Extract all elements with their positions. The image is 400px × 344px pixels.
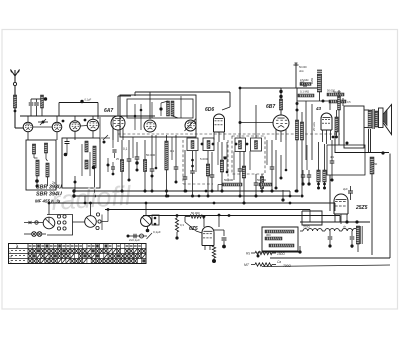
junction heater <box>355 220 358 223</box>
wire net top <box>297 87 318 89</box>
wire L1 bottom2 <box>47 177 49 186</box>
field coil <box>370 157 374 174</box>
wire 6B7 top <box>280 88 282 115</box>
junction antenna <box>14 110 17 113</box>
wire 25Z5 pins <box>335 214 349 224</box>
coil L1b lower <box>46 163 49 177</box>
wire V3 stub <box>74 116 76 121</box>
capacitor C13 <box>330 140 335 182</box>
bus wire 5 <box>143 215 340 217</box>
label MF 455 <box>35 199 61 204</box>
switch S1 frame <box>47 215 73 236</box>
IF1 diag <box>185 119 197 132</box>
wires IF2 bottom <box>275 150 283 190</box>
resistor R6 <box>206 151 209 198</box>
wire extra11 <box>306 145 308 170</box>
pilot lamps <box>24 232 46 237</box>
box B1 fill <box>207 141 210 149</box>
label 6Z5 <box>189 226 198 232</box>
label MT val <box>277 260 291 268</box>
label Rs val <box>277 252 285 256</box>
trimmer arrow S3 <box>147 233 153 239</box>
resistor R1 <box>41 95 44 116</box>
wire extra1 <box>132 137 134 158</box>
capacitor C9 <box>254 174 259 198</box>
shield dashed v1 <box>183 140 228 184</box>
svg-text:150Ω: 150Ω <box>277 252 285 256</box>
svg-text:ch: ch <box>343 225 346 229</box>
IF1 coil a <box>167 101 170 116</box>
IF1 can <box>120 95 196 137</box>
wire top bus1 <box>118 95 131 97</box>
wire v4 down <box>92 131 94 138</box>
capacitor C8 <box>238 152 243 198</box>
wire spk top <box>364 109 369 111</box>
label 25m <box>116 157 119 161</box>
capacitor C4b <box>150 135 155 193</box>
wire 45v <box>306 101 316 160</box>
watermark <box>50 180 132 216</box>
legend MT <box>244 263 250 267</box>
label 50k <box>146 153 156 157</box>
label 6A7 <box>104 108 113 114</box>
coil L1b upper <box>44 143 47 153</box>
resistor R8 <box>242 151 245 205</box>
trimmer L2 <box>64 138 70 156</box>
svg-text:6A7: 6A7 <box>104 108 113 114</box>
wire L2 verts <box>82 144 90 176</box>
wire heater bus <box>300 221 370 223</box>
junction 6Z5 k <box>212 258 216 263</box>
bus wire 1 <box>74 190 290 192</box>
wire mains 1 <box>258 246 300 252</box>
bus wire 1b <box>289 191 291 196</box>
capacitor C3 <box>127 140 132 182</box>
wire 25Z5 frame <box>302 211 322 225</box>
wire gang2 <box>80 125 87 128</box>
wire choke line <box>300 230 342 232</box>
bus wire 3b <box>334 203 336 211</box>
svg-text:0,3: 0,3 <box>180 223 184 227</box>
shield dashed line <box>118 133 340 135</box>
capacitor C17 <box>134 234 136 238</box>
resistor R2 <box>120 140 123 193</box>
wire 6B7 grid <box>239 121 273 124</box>
wire field box <box>335 131 364 153</box>
label 40000 <box>330 155 335 159</box>
resistor R9 <box>260 174 263 193</box>
capacitor C2 <box>34 99 39 116</box>
resistor R3 <box>143 140 146 193</box>
coil L2a upper <box>85 141 88 152</box>
wire mains 2 <box>270 257 390 259</box>
wire extra10 <box>285 140 288 171</box>
wire S1 in <box>24 221 43 224</box>
resistor R10 <box>279 99 282 110</box>
resistor volume2 <box>218 178 242 191</box>
svg-text:700Ω: 700Ω <box>303 225 310 229</box>
capacitor C15 <box>301 170 305 186</box>
wire extra3 <box>171 137 173 160</box>
transformer T-output primary <box>368 110 372 128</box>
IF1 inner box <box>127 99 193 118</box>
speaker cone <box>383 105 392 135</box>
label 43 <box>315 106 322 111</box>
legend Rs <box>246 252 250 256</box>
wire topright <box>294 63 308 88</box>
svg-text:1μF: 1μF <box>300 80 305 84</box>
junction L1 bottom <box>35 179 39 183</box>
wire 6A7 pins <box>113 128 123 142</box>
coil box L2 <box>62 138 100 188</box>
wire B3 up <box>255 105 257 138</box>
label 2x01 <box>129 238 140 242</box>
ballast R b <box>265 237 282 240</box>
label 03 <box>180 223 184 227</box>
resistor R4 <box>165 135 168 198</box>
wire ant coil top <box>31 98 46 100</box>
box B3 fill <box>255 141 258 150</box>
svg-text:25 volts: 25 volts <box>312 121 316 131</box>
wire top bus2 <box>135 92 230 119</box>
wire extra4 <box>195 151 197 172</box>
capacitor C12 <box>300 80 306 88</box>
junction b1 <box>298 250 301 253</box>
wire field down <box>371 174 373 255</box>
box B0 <box>187 138 198 151</box>
box B0 fill <box>191 141 194 149</box>
capacitor Cm2 <box>111 162 115 175</box>
capacitor C11 <box>317 70 322 72</box>
tube 25Z5 <box>334 194 348 214</box>
capacitor C14 <box>343 186 353 200</box>
choke 1 <box>303 225 322 232</box>
resistor R14d <box>300 78 311 85</box>
transformer T2 <box>356 226 362 244</box>
resistor R18 cathode <box>212 246 215 259</box>
wire L1 links <box>34 153 48 161</box>
svg-text:0,1 MΩ: 0,1 MΩ <box>300 90 309 94</box>
resistor R13 <box>317 74 321 92</box>
resistor R12 <box>300 112 303 198</box>
resistor R17 <box>190 211 204 218</box>
junction osc top <box>80 100 83 103</box>
choke 2 <box>325 229 339 231</box>
wire switch link <box>73 221 85 223</box>
svg-text:300: 300 <box>266 233 271 237</box>
tube V7 <box>185 120 196 131</box>
svg-text:0,5: 0,5 <box>223 155 228 159</box>
label 0,5 <box>223 155 228 159</box>
wire v1 down <box>27 132 29 140</box>
wire bottom long <box>262 265 390 267</box>
wire 6D6 gridcap <box>222 92 230 110</box>
wire 6Z5 grid <box>185 217 202 234</box>
tube 43 <box>321 113 332 130</box>
svg-text:0,1: 0,1 <box>170 149 175 153</box>
wire v2 down <box>56 132 58 140</box>
capacitor C4 <box>135 142 140 172</box>
line S3 bottom <box>127 235 148 238</box>
label 0,1b <box>170 149 175 153</box>
capacitor C5 <box>174 135 179 184</box>
junction g1 <box>62 120 65 123</box>
wire V1 stub <box>27 116 29 122</box>
wire v3 down <box>74 131 76 140</box>
capacitor C16 <box>307 170 311 186</box>
coil form V2 <box>52 122 62 132</box>
wire 6Z5 screen <box>218 214 221 227</box>
box B2 dots <box>235 143 249 146</box>
junction g2 <box>84 119 87 122</box>
svg-text:6Z5: 6Z5 <box>189 226 198 232</box>
ballast R a <box>265 230 294 233</box>
label ballast <box>266 233 271 237</box>
svg-text:radiofil: radiofil <box>50 180 132 216</box>
wire switch up <box>48 202 92 216</box>
wire 6B7 bus <box>281 87 297 89</box>
svg-text:1350: 1350 <box>371 162 378 166</box>
wire 6B7 pins <box>276 129 286 142</box>
wire hv <box>329 175 331 211</box>
coil L2b <box>93 146 96 168</box>
switch S1 contacts <box>57 215 66 230</box>
wire extra9 <box>266 140 268 165</box>
wire V4 stub <box>92 116 94 119</box>
resistor R14c <box>329 100 351 104</box>
junction S3 <box>146 227 150 233</box>
tube 6B7 <box>273 115 289 131</box>
svg-text:0,1μF: 0,1μF <box>85 98 92 102</box>
switch S2 wafer <box>85 216 97 228</box>
svg-text:50.000: 50.000 <box>299 66 307 69</box>
wire spk down <box>369 129 371 153</box>
svg-text:0,1: 0,1 <box>123 147 128 151</box>
bus wire 2 <box>74 195 300 197</box>
svg-text:50.000: 50.000 <box>191 211 200 215</box>
wire to 43 grid <box>329 101 331 110</box>
wire extra5 <box>217 142 219 165</box>
resistor volume <box>257 178 272 186</box>
wire screen drop <box>338 90 340 145</box>
tube 6Z5 <box>202 227 214 251</box>
wire extra6 <box>226 142 229 173</box>
svg-text:Rs: Rs <box>246 252 250 256</box>
junction net <box>322 100 325 103</box>
wire gang <box>33 126 52 128</box>
label 0,1 <box>123 147 128 151</box>
label SBR 393U <box>36 185 62 191</box>
table leftcells <box>9 244 26 264</box>
svg-text:2x0,1μF: 2x0,1μF <box>129 238 140 242</box>
label 0,1 Mohm <box>300 90 309 94</box>
bus wire 4 <box>105 209 310 211</box>
resistor MT <box>251 263 276 266</box>
bus wire 4b <box>309 210 311 223</box>
coil form V4 <box>87 119 99 131</box>
tube V6 <box>144 120 156 132</box>
wire L2 bottom <box>74 168 97 198</box>
switch S3 <box>141 215 160 227</box>
resistor R15 <box>317 142 320 190</box>
bus wire 3 <box>50 202 335 204</box>
wire antenna to tuner <box>15 127 23 129</box>
junction C4 <box>135 161 138 164</box>
bus dots <box>121 179 334 217</box>
label 6D6 <box>205 107 214 113</box>
switch S1 wafer <box>43 217 55 229</box>
svg-text:0,5: 0,5 <box>347 100 351 104</box>
ballast box <box>262 227 298 251</box>
IF1 wires <box>134 96 181 130</box>
svg-text:50.000: 50.000 <box>257 178 267 182</box>
wire S3 up <box>145 202 148 216</box>
wire extra7 <box>233 152 235 181</box>
resistor R20 <box>338 96 341 110</box>
svg-text:43: 43 <box>315 106 322 111</box>
capacitor C1 <box>29 99 34 116</box>
wire tuner vert <box>97 103 99 120</box>
resistor R19 grid <box>175 215 178 240</box>
box B2 fill <box>239 141 242 150</box>
wire extra2 <box>155 135 158 169</box>
wire right edge <box>389 154 391 259</box>
wire 43 pins <box>323 130 335 144</box>
svg-text:5.000: 5.000 <box>200 157 208 161</box>
wire plate top <box>296 88 298 106</box>
wire 6Z5 anode <box>203 215 206 227</box>
capacitor C6 <box>190 151 195 198</box>
capacitor Cm1 <box>112 150 116 158</box>
lamp L <box>140 234 144 238</box>
wire 6D6 pins <box>214 132 224 142</box>
box B3 <box>251 138 262 151</box>
resistor R14b <box>327 89 344 97</box>
capacitor C19 <box>328 231 333 248</box>
ground L1 <box>36 176 39 188</box>
svg-text:Ca: Ca <box>277 260 281 264</box>
svg-text:6D6: 6D6 <box>205 107 214 113</box>
junction m1 <box>107 158 110 172</box>
resistor R11 <box>295 102 298 193</box>
coil L2a lower <box>85 160 88 169</box>
wire hv right <box>351 246 353 248</box>
wire T2 down <box>357 244 359 252</box>
shield dashed box IF2 <box>232 136 265 174</box>
resistor antenna series <box>13 95 16 108</box>
resistor Rs <box>251 251 276 254</box>
capacitor C18 <box>214 230 227 248</box>
coil form V1 <box>23 122 33 132</box>
coil box L1 <box>26 140 56 190</box>
wire spk bot <box>364 127 369 129</box>
antenna <box>11 70 20 129</box>
box B1 <box>203 138 214 151</box>
wire 6D6 plate <box>239 87 281 138</box>
label 2x <box>52 181 56 185</box>
label 1 Mohm <box>310 78 314 84</box>
IF1 coil leads <box>159 101 178 118</box>
wavelength table <box>9 244 147 264</box>
tube 6A7 <box>111 116 125 130</box>
svg-text:ohm: ohm <box>299 70 304 73</box>
svg-text:2μF: 2μF <box>343 187 348 191</box>
box output sec <box>327 145 365 175</box>
junction vol <box>281 190 284 202</box>
bus wire 5b <box>339 216 341 223</box>
label SBR 394U <box>36 192 62 198</box>
choke 3 <box>342 225 358 232</box>
svg-text:50.000: 50.000 <box>333 90 341 94</box>
bus left junctions <box>72 189 86 204</box>
wire mains stub <box>257 252 260 258</box>
svg-text:0,1μF: 0,1μF <box>153 230 161 234</box>
speaker body <box>379 108 384 128</box>
junction ant coil <box>44 97 47 100</box>
junction field <box>364 151 389 154</box>
transformer T-output secondary <box>375 111 378 127</box>
coil L1a lower <box>36 160 39 176</box>
label field <box>371 162 378 166</box>
resistor R16 <box>323 144 326 190</box>
trimmer CT1 <box>38 119 48 125</box>
tube 6D6 <box>214 114 225 132</box>
junction L2 <box>92 166 95 169</box>
wire osc top <box>59 98 98 117</box>
wire net right <box>297 92 330 101</box>
wire extra8 <box>249 151 251 170</box>
coil L1a upper <box>32 144 35 154</box>
coil form V3 <box>70 121 81 132</box>
box B1 dots <box>201 143 215 146</box>
resistor R5 <box>183 150 188 193</box>
label S3 <box>153 230 161 234</box>
label 6B7 <box>266 104 275 110</box>
svg-text:50.000: 50.000 <box>146 153 156 157</box>
label 5000 <box>200 157 208 161</box>
capacitor C7 <box>210 152 215 193</box>
IF1 coil b <box>171 101 174 116</box>
junction 6B7 top <box>279 90 282 98</box>
svg-text:25Z5: 25Z5 <box>355 205 368 211</box>
wire spk loop <box>343 98 364 148</box>
resistor R21 <box>335 110 338 138</box>
ballast R c <box>269 244 294 247</box>
switch S2 contacts <box>96 208 110 230</box>
trimmer mid <box>100 117 113 148</box>
wire grid bus <box>20 115 155 117</box>
label 50000b <box>333 90 341 94</box>
wire 6A7 top <box>117 96 119 116</box>
label 25Z5 <box>355 205 368 211</box>
transformer T-output core <box>373 109 374 129</box>
capacitor C10 <box>270 140 275 193</box>
resistor R14 <box>298 94 314 97</box>
capacitor C20 <box>350 231 355 248</box>
resistor R7 <box>220 142 226 193</box>
svg-text:50.000: 50.000 <box>224 178 234 182</box>
wire V2 stub <box>56 116 58 122</box>
svg-text:6B7: 6B7 <box>266 104 275 110</box>
box B2 <box>235 138 246 152</box>
